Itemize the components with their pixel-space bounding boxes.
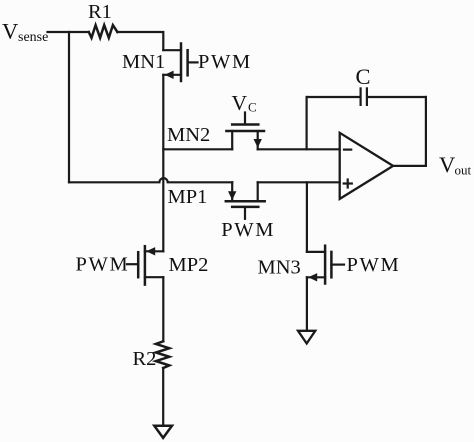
svg-text:MN1: MN1 bbox=[122, 51, 165, 73]
wire plus-input rail from Vsense branch with crossover hop bbox=[69, 178, 232, 182]
svg-text:PWM: PWM bbox=[198, 51, 252, 73]
label PWM at MP2 gate bbox=[76, 254, 130, 276]
svg-text:MN3: MN3 bbox=[258, 256, 301, 278]
svg-text:PWM: PWM bbox=[76, 254, 130, 276]
svg-text:C: C bbox=[248, 100, 257, 115]
transistor MP2 bbox=[127, 246, 163, 284]
ground bottom bbox=[154, 426, 172, 438]
node Vsense label bbox=[2, 19, 48, 45]
wire feedback right vertical bbox=[425, 97, 427, 166]
capacitor C plates bbox=[360, 88, 362, 105]
resistor R1 bbox=[89, 25, 118, 38]
label MN3 bbox=[258, 256, 301, 278]
svg-text:C: C bbox=[356, 64, 371, 89]
wire op-amp output bbox=[393, 165, 426, 167]
svg-text:R1: R1 bbox=[88, 1, 112, 23]
resistor R2 bbox=[156, 341, 169, 368]
svg-text:MN2: MN2 bbox=[167, 124, 210, 146]
svg-text:V: V bbox=[2, 19, 18, 44]
wire minus-input rail right segment bbox=[258, 148, 340, 150]
svg-text:MP1: MP1 bbox=[168, 186, 208, 208]
svg-text:PWM: PWM bbox=[221, 219, 275, 241]
op-amp U1 bbox=[340, 133, 393, 199]
value label C bbox=[356, 64, 371, 89]
wire plus-input rail right segment bbox=[258, 181, 340, 183]
transistor MN1 bbox=[163, 44, 197, 82]
wire Vsense branch down to plus-input rail bbox=[68, 32, 70, 182]
label MN2 bbox=[167, 124, 210, 146]
transistor MP1 bbox=[226, 182, 265, 219]
wire R1 to MN1 drain bbox=[117, 32, 163, 50]
wire Vsense to R1 bbox=[48, 31, 89, 33]
label MP2 bbox=[169, 254, 209, 276]
label PWM at MN1 gate bbox=[198, 51, 252, 73]
wire minus-input rail left segment bbox=[163, 148, 232, 150]
wire MN1 source down to MP2 drain bbox=[162, 75, 164, 252]
wire MN3 drain from plus rail bbox=[306, 182, 308, 252]
wire MP2 source to R2 bbox=[162, 277, 164, 341]
transistor MN2 bbox=[226, 113, 264, 150]
svg-text:V: V bbox=[439, 152, 455, 177]
value label R1 bbox=[88, 1, 112, 23]
label PWM at MP1 gate bbox=[221, 219, 275, 241]
capacitor C top wire left bbox=[307, 96, 360, 98]
transistor MN3 bbox=[307, 246, 344, 284]
value label R2 bbox=[133, 348, 157, 370]
wire feedback left vertical bbox=[306, 97, 308, 149]
svg-text:PWM: PWM bbox=[347, 254, 401, 276]
svg-text:sense: sense bbox=[18, 30, 48, 45]
node Vout label bbox=[439, 152, 472, 177]
wire R2 to ground bbox=[162, 368, 164, 426]
wire MN3 source to ground bbox=[306, 277, 308, 331]
label MN1 bbox=[122, 51, 165, 73]
ground right bbox=[298, 331, 315, 344]
label PWM at MN3 gate bbox=[347, 254, 401, 276]
svg-text:MP2: MP2 bbox=[169, 254, 209, 276]
capacitor C top wire right bbox=[368, 96, 426, 98]
label MP1 bbox=[168, 186, 208, 208]
svg-text:R2: R2 bbox=[133, 348, 157, 370]
node VC label bbox=[232, 91, 257, 115]
svg-text:out: out bbox=[455, 162, 472, 177]
